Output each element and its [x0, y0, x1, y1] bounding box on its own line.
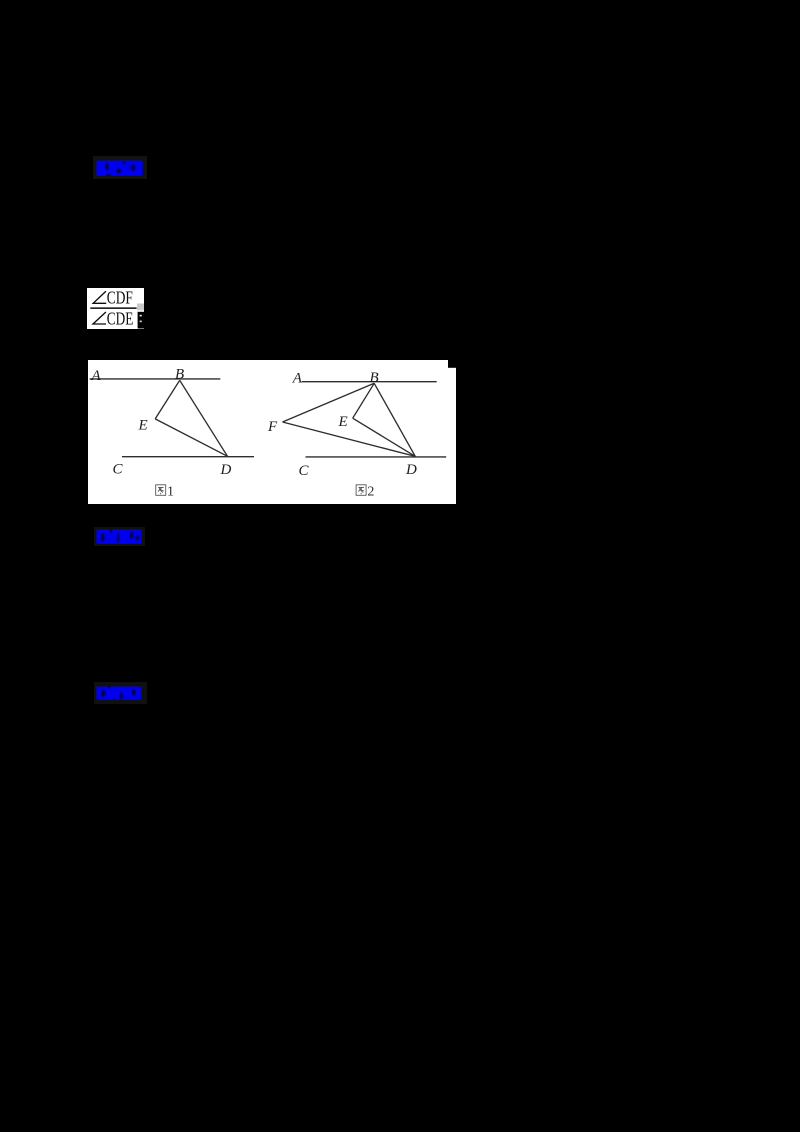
svg-text:CDE: CDE — [107, 308, 134, 328]
svg-text:B: B — [370, 370, 379, 386]
fig1 line AB — [90, 378, 221, 380]
svg-text:E: E — [138, 418, 148, 434]
fig2 line BF — [283, 383, 375, 422]
gray square — [137, 304, 144, 311]
label 【分析】 (blue) — [96, 160, 143, 177]
fig2 line BD — [374, 383, 415, 456]
svg-text:D: D — [405, 462, 417, 478]
svg-text:1: 1 — [167, 485, 174, 500]
caption glyph tu2 — [356, 485, 366, 496]
fig1 line BE — [155, 380, 180, 419]
halo behind answer label — [94, 527, 145, 546]
label 【解答】 (blue) — [96, 529, 142, 545]
fig2 line ED — [353, 418, 416, 456]
fig1 line ED — [155, 419, 227, 456]
svg-text:CDF: CDF — [107, 288, 133, 308]
svg-text:A: A — [91, 368, 102, 384]
halo behind analysis label — [93, 156, 147, 179]
svg-text:D: D — [220, 462, 232, 478]
label 【点评】 (blue) — [96, 686, 142, 701]
fraction bar — [90, 307, 136, 309]
fraction image white box — [87, 288, 144, 329]
svg-text:A: A — [292, 370, 303, 386]
fig2 line FD — [283, 422, 416, 456]
black notch top-right — [448, 360, 456, 368]
svg-text:C: C — [299, 463, 310, 479]
svg-text:B: B — [175, 367, 184, 383]
angle symbol top — [93, 291, 106, 303]
fig2 line AB — [302, 381, 437, 383]
svg-text:C: C — [113, 462, 124, 478]
svg-text:F: F — [267, 419, 278, 435]
svg-text:2: 2 — [367, 485, 374, 500]
halo behind comment label — [94, 682, 147, 704]
fig2 line CD — [306, 456, 447, 458]
fig1 line BD — [180, 380, 228, 456]
angle symbol bottom — [93, 312, 106, 324]
fig2 line BE — [353, 383, 375, 418]
black cursor block — [138, 312, 144, 329]
svg-text:E: E — [338, 414, 348, 430]
caption glyph tu1 — [156, 485, 166, 496]
fig1 line CD — [122, 456, 254, 458]
figure image white box — [88, 360, 456, 504]
